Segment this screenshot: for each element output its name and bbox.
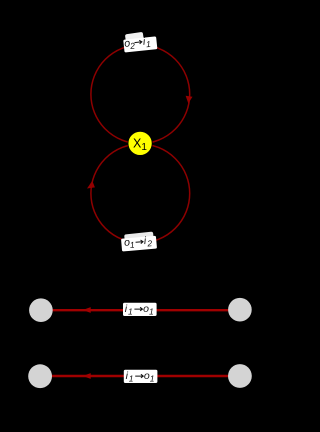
wire: row 2 edge xyxy=(41,375,240,377)
node row1 right (gray) xyxy=(228,298,252,322)
edge label o2->i1 back box (overlapping label) xyxy=(125,32,144,44)
node row1 left (gray) xyxy=(29,298,53,322)
arrowhead on bottom circle (clockwise, left side pointing up) xyxy=(87,181,95,189)
svg-text:1: 1 xyxy=(150,374,155,384)
self-loop edge: top circle xyxy=(91,45,190,144)
svg-text:1: 1 xyxy=(149,307,154,317)
arrowhead row 1 (pointing left) xyxy=(83,307,91,313)
svg-text:1: 1 xyxy=(129,374,134,384)
node row2 left (gray) xyxy=(28,364,52,388)
arrowhead on top circle (clockwise, right side pointing down) xyxy=(186,96,193,104)
wire: row 1 edge xyxy=(41,309,240,311)
edge label o1->i2 back box (overlapping label) xyxy=(124,232,154,244)
self-loop edge: bottom circle xyxy=(91,144,190,243)
node X1 (yellow) xyxy=(128,131,152,155)
edge label i1->o1 (row 2) xyxy=(124,370,158,384)
edge label i1->o1 (row 1) xyxy=(123,303,157,317)
edge label o2->i1 (top circle) xyxy=(123,35,157,53)
node row2 right (gray) xyxy=(228,364,252,388)
edge label o1->i2 (bottom circle) xyxy=(121,234,157,251)
svg-text:1: 1 xyxy=(128,307,133,317)
svg-text:2: 2 xyxy=(146,238,153,248)
arrowhead row 2 (pointing left) xyxy=(83,373,91,379)
